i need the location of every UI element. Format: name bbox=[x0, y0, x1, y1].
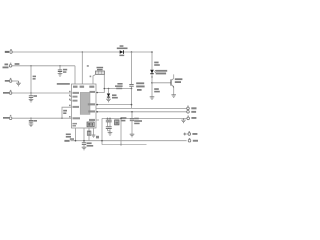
ground at terminal3 bbox=[16, 81, 21, 86]
terminal GND label bbox=[193, 140, 198, 142]
diode D2 label above bbox=[117, 45, 128, 49]
node label above wire2 bbox=[15, 63, 20, 65]
wire BST branch vertical bbox=[131, 52, 133, 84]
junction LED chain/base wire bbox=[151, 82, 153, 84]
ground under D1 bbox=[106, 99, 111, 102]
capacitor C3 BST bbox=[129, 84, 133, 88]
capacitor C5 below wire5 bbox=[29, 118, 33, 124]
junction wire2/R1 bbox=[30, 65, 31, 66]
junction node/D1 bbox=[108, 88, 110, 90]
resistor R1 label bbox=[33, 76, 36, 80]
pin D label bbox=[96, 136, 99, 139]
component box label bbox=[121, 117, 127, 121]
wire node down to VOUT wire bbox=[131, 89, 133, 109]
IC U1 bottom box component bbox=[87, 122, 94, 127]
capacitor CB bbox=[108, 118, 111, 124]
terminal J2 bbox=[9, 63, 12, 67]
wire IC bottom gnd row bbox=[71, 140, 187, 142]
IC bottom pin A bbox=[75, 128, 77, 141]
terminal J5 bbox=[9, 115, 12, 120]
wire FB row bbox=[102, 117, 187, 119]
terminal FB right bbox=[187, 116, 190, 120]
wire VIN rail bbox=[12, 51, 152, 53]
junction gndrow/FBcol bbox=[101, 140, 103, 142]
capacitor CB2 lower bbox=[108, 125, 111, 131]
diode D2 label below bbox=[119, 55, 124, 57]
transistor Q1 bbox=[171, 74, 174, 94]
ground under C7 bbox=[82, 147, 87, 150]
wire Q1 base bbox=[152, 82, 171, 84]
IC U1 box bbox=[72, 84, 97, 128]
capacitor C4 below wire4 bbox=[29, 95, 33, 99]
ground under C2 bbox=[58, 74, 63, 77]
wire VOUT to terminal bbox=[96, 107, 187, 109]
wire terminal2 row bbox=[12, 65, 75, 67]
junction FB/divider bbox=[120, 118, 122, 120]
junction wire2/C2 bbox=[59, 65, 60, 66]
terminal FB label bbox=[191, 117, 196, 119]
resistor R4 top of LED chain bbox=[151, 52, 153, 70]
IC U1 pin labels inside left bbox=[72, 92, 80, 127]
IC U1 thermal pad bbox=[80, 92, 90, 114]
LED D3 label bbox=[156, 70, 168, 75]
terminal J3 bbox=[9, 78, 12, 82]
plus mark at AUX bbox=[183, 133, 186, 136]
capacitor C6 label bbox=[134, 118, 142, 125]
IC U1 short stub pin2 left bbox=[70, 96, 72, 98]
junction pinA/gndrow bbox=[75, 140, 77, 142]
capacitor CA2 lower bbox=[106, 125, 109, 131]
IC bottom pin C with box bbox=[87, 128, 91, 141]
ground under pin D bbox=[92, 135, 96, 137]
wire L1 right lead down bbox=[103, 74, 105, 88]
pin dot right B bbox=[96, 111, 98, 113]
inductor L1 label bbox=[97, 67, 104, 71]
wire FB corner vertical bbox=[101, 118, 103, 144]
resistor R4 label bbox=[154, 62, 160, 66]
junction pinB/comp bbox=[131, 111, 133, 113]
ground under cap cluster bbox=[108, 131, 113, 135]
label on pin4 L vertical bbox=[63, 110, 67, 114]
capacitor C2 label bbox=[63, 69, 67, 73]
junction pinB/gndrow bbox=[83, 140, 85, 142]
junction FB/capA bbox=[107, 118, 109, 120]
pin dot right A bbox=[96, 104, 98, 106]
wire comp branch from pinB row bbox=[131, 112, 133, 119]
terminal J1 VIN bbox=[10, 49, 13, 53]
wire cap columns tie bbox=[108, 130, 111, 132]
wire rail to IC pin2 top bbox=[81, 52, 83, 84]
wire wire2 corner down to IC pin1 top bbox=[74, 66, 76, 84]
junction node/L1 bbox=[104, 88, 106, 90]
capacitor C2 on wire2 bbox=[58, 66, 62, 74]
junction LED chain mid bbox=[151, 76, 152, 77]
terminal J4 label bbox=[3, 92, 9, 94]
IC U1 pin labels inside top bbox=[73, 86, 94, 88]
pin A label bbox=[66, 134, 74, 140]
junction wire4/R1 bbox=[30, 92, 31, 93]
pin number mark top pin3 bbox=[90, 76, 92, 78]
terminal AUX right bbox=[187, 131, 191, 135]
component box FB network bbox=[115, 120, 119, 125]
pin number marks left bbox=[69, 91, 71, 118]
terminal J4 bbox=[9, 90, 12, 94]
capacitor C7 label bbox=[87, 142, 94, 146]
terminal J5 label bbox=[3, 117, 10, 119]
terminal J3 label bbox=[5, 80, 9, 82]
junction pin4-L/wire5 bbox=[61, 118, 62, 119]
terminal SNS bbox=[187, 111, 190, 114]
junction wire5/C5 bbox=[30, 118, 31, 119]
wire L1 left lead to IC top pin3 bbox=[93, 74, 96, 84]
net label left of bottom gnd row bbox=[64, 140, 69, 142]
wire terminal5 row to IC bbox=[12, 117, 72, 119]
resistor R6 label lower bbox=[154, 88, 160, 92]
terminal SNS label bbox=[191, 111, 196, 113]
terminal VOUT bbox=[187, 106, 190, 110]
diode D1 bbox=[107, 89, 110, 100]
capacitor C5 label bbox=[33, 120, 37, 122]
ground under C6 bbox=[130, 134, 135, 137]
wire divider vertical bbox=[120, 118, 122, 144]
wire terminal4 row to IC bbox=[12, 92, 72, 94]
terminal AUX label bbox=[192, 133, 197, 135]
terminal J2 label bbox=[3, 64, 9, 69]
junction rail/LED chain bbox=[151, 51, 153, 53]
IC U1 short stub pin3 left bbox=[70, 100, 72, 102]
terminal GND right bbox=[188, 138, 191, 142]
ground under C5 bbox=[29, 124, 34, 127]
node VIN terminal label bbox=[5, 51, 9, 53]
junction rail/BST branch bbox=[131, 51, 133, 53]
capacitor C4 label bbox=[33, 95, 37, 97]
capacitor C7 under pin B bbox=[82, 143, 86, 147]
IC bottom pin B bbox=[83, 128, 85, 143]
pin dot SW bbox=[96, 92, 98, 94]
ground under C4 bbox=[29, 99, 34, 102]
wire IC right pin A to BST column bbox=[96, 104, 132, 106]
wire IC pin4 left L-shape bbox=[62, 107, 72, 118]
inductor L1 bbox=[96, 71, 105, 74]
resistor R1 vertical bbox=[30, 66, 32, 95]
IC bottom pin D bbox=[93, 128, 95, 135]
stray mark near rail vertical bbox=[87, 65, 89, 67]
junction FB/capB bbox=[109, 118, 111, 120]
junction divider/rail bbox=[120, 144, 122, 146]
IC U1 name label bbox=[57, 83, 70, 85]
ground under FB terminal wire bbox=[181, 118, 186, 122]
terminal VOUT label bbox=[191, 107, 196, 109]
junction rail/pin2 bbox=[82, 51, 83, 52]
ground under LED chain bbox=[150, 97, 155, 100]
LED D3 bbox=[150, 70, 156, 97]
wire SW pin to node bbox=[96, 89, 104, 93]
junction pinA/column bbox=[131, 104, 133, 106]
wire right pin B to terminal2 bbox=[96, 111, 187, 113]
IC U1 pin labels inside right bbox=[88, 91, 95, 121]
pin stub FB IC bbox=[96, 119, 99, 121]
junction node/BST cap bbox=[131, 88, 133, 90]
capacitor C6 comp bbox=[130, 119, 134, 134]
diode D2 on rail bbox=[120, 50, 124, 54]
wire output node bbox=[104, 88, 131, 90]
diode D1 label bbox=[112, 94, 118, 98]
resistor R5 label block left bbox=[136, 82, 144, 90]
ground under Q1 bbox=[171, 95, 176, 98]
capacitor C3 label bbox=[115, 83, 123, 89]
wire terminal3 stub bbox=[12, 80, 19, 82]
capacitor CA bbox=[106, 118, 109, 124]
wire GND rail bottom bbox=[102, 144, 147, 146]
transistor Q1 label right bbox=[175, 78, 183, 83]
